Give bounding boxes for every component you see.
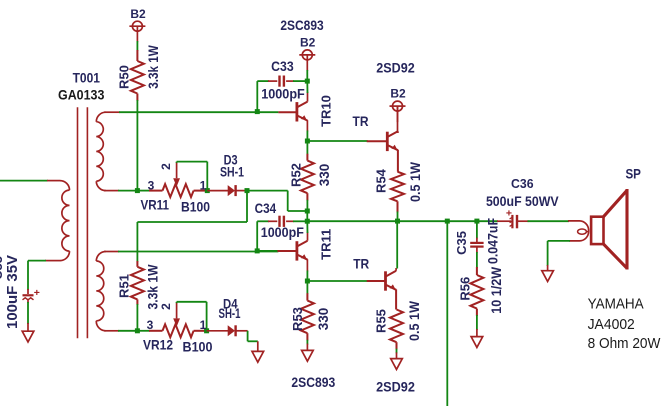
- svg-text:VR11: VR11: [140, 197, 169, 213]
- wire base node up: [257, 81, 269, 112]
- ground: [22, 331, 34, 342]
- label B2 (C33): [300, 35, 316, 49]
- svg-text:C34: C34: [255, 200, 277, 216]
- label SP: [625, 166, 641, 182]
- node VR11 pin1: [205, 188, 210, 193]
- VR11 wiper: [173, 162, 180, 187]
- label R50: [117, 65, 132, 89]
- transistor TR (2SD92 bottom): [386, 271, 397, 291]
- label SH-1 (D3): [220, 164, 244, 180]
- svg-text:TR11: TR11: [318, 229, 333, 260]
- wire R52 to rail: [306, 211, 308, 221]
- node TR11 emitter: [305, 279, 310, 284]
- label B100 (VR11): [181, 199, 210, 215]
- capacitor C36: [497, 208, 529, 229]
- label R55: [374, 309, 389, 333]
- label R56: [457, 277, 472, 301]
- svg-text:1000pF: 1000pF: [261, 224, 304, 240]
- wire lower base node up: [257, 221, 269, 251]
- svg-text:SH-1: SH-1: [220, 164, 244, 180]
- label 1000pF (C34): [261, 224, 304, 240]
- wire base TR11: [257, 250, 297, 252]
- label TR (top): [353, 113, 369, 129]
- TR collector wire: [397, 106, 399, 133]
- svg-text:R56: R56: [457, 277, 472, 301]
- svg-text:0.5 1W: 0.5 1W: [407, 301, 422, 341]
- node rail R54: [395, 219, 400, 224]
- node D3 cathode: [245, 188, 250, 193]
- speaker SP: [591, 189, 627, 270]
- svg-text:+: +: [506, 208, 512, 220]
- TR10 emitter wire: [306, 120, 308, 141]
- label 2SD92 bottom: [376, 378, 415, 394]
- TR2 collector wire: [396, 221, 397, 271]
- svg-text:2: 2: [159, 303, 173, 310]
- resistor R54: [391, 172, 404, 221]
- transformer secondary 2: [96, 252, 106, 331]
- label VR12: [143, 336, 173, 352]
- svg-text:B2: B2: [130, 7, 146, 21]
- svg-text:TR: TR: [353, 256, 369, 272]
- svg-text:2SC893: 2SC893: [291, 374, 335, 390]
- transformer T001 primary winding: [60, 181, 70, 261]
- label 0.5 1W (R54): [408, 162, 423, 202]
- wire D4 to ground: [248, 331, 258, 352]
- label 500uF 50WV: [486, 194, 559, 209]
- svg-text:R52: R52: [289, 163, 304, 187]
- speaker lead loop: [568, 221, 589, 241]
- power B2 (TR): [390, 101, 406, 122]
- ground (D4): [252, 351, 264, 362]
- svg-text:GA0133: GA0133: [58, 86, 105, 102]
- TR11 collector wire: [306, 221, 308, 240]
- wire rail down: [446, 221, 448, 406]
- svg-text:SP: SP: [625, 166, 641, 182]
- wire to VR11 pin3: [137, 190, 162, 192]
- label 2SC893 bottom: [291, 374, 335, 390]
- label GA0133: [58, 86, 105, 102]
- svg-text:100uF 35V: 100uF 35V: [5, 255, 21, 329]
- node C34 right: [305, 219, 310, 224]
- svg-text:2SD92: 2SD92: [376, 60, 415, 76]
- wire sec1 top: [104, 111, 278, 113]
- resistor R50: [131, 50, 144, 101]
- trimmer VR11: [163, 184, 194, 197]
- wire VR12 wiper to pin1: [177, 302, 207, 331]
- wire to TR base (bottom): [307, 280, 386, 282]
- power B2 (R50): [129, 21, 145, 42]
- svg-text:1: 1: [200, 318, 207, 332]
- svg-text:SH-1: SH-1: [219, 305, 241, 321]
- resistor R55: [390, 310, 403, 359]
- label T001: [73, 69, 101, 85]
- TR2 emitter wire: [395, 289, 397, 309]
- svg-text:TR: TR: [353, 113, 369, 129]
- svg-text:B2: B2: [390, 87, 406, 101]
- capacitor 100uF 35V: [23, 287, 40, 303]
- label B2 (R50): [130, 7, 146, 21]
- wire B2-R50: [136, 41, 138, 51]
- label JA4002: [588, 316, 635, 333]
- label R51: [117, 274, 132, 298]
- VR11 pin1 wire: [194, 190, 208, 192]
- svg-text:330: 330: [316, 308, 331, 331]
- label 1000pF (C33): [261, 86, 305, 102]
- svg-text:R53: R53: [290, 307, 305, 331]
- diode D3: [207, 185, 247, 196]
- svg-text:0.047uF: 0.047uF: [486, 218, 501, 264]
- svg-text:VR12: VR12: [143, 336, 173, 352]
- capacitor C34: [268, 216, 294, 227]
- label VR11: [140, 197, 169, 213]
- transistor TR (2SD92 top): [387, 131, 398, 151]
- label 3.3k 1W: [145, 45, 161, 89]
- pin label 1 (VR12): [200, 318, 207, 332]
- transistor TR11: [297, 241, 308, 261]
- label R53: [290, 307, 305, 331]
- label 0.047uF: [486, 218, 501, 264]
- VR12 pin1 wire: [194, 330, 207, 332]
- wire D3 to lower base: [137, 191, 247, 262]
- svg-text:2SC893: 2SC893: [280, 17, 323, 33]
- node VR12 pin1: [204, 328, 209, 333]
- node rail C35: [474, 219, 479, 224]
- wire primary bottom: [28, 261, 60, 290]
- transformer secondary 1: [96, 112, 106, 190]
- svg-text:1: 1: [200, 179, 207, 193]
- svg-text:R51: R51: [117, 274, 132, 298]
- label R52: [289, 163, 304, 187]
- ground (R55): [391, 359, 403, 370]
- wire base TR10: [278, 111, 297, 113]
- node rail branch: [445, 219, 450, 224]
- TR10 collector wire: [306, 81, 308, 102]
- svg-text:3.3k 1W: 3.3k 1W: [145, 264, 161, 310]
- label B2 (TR): [390, 87, 406, 101]
- transistor TR10: [297, 102, 308, 122]
- label B100 (VR12): [183, 339, 213, 355]
- trimmer VR12: [163, 324, 194, 337]
- node C33 right: [305, 79, 310, 84]
- TR11 emitter wire: [306, 259, 308, 281]
- label 2SC893 top: [280, 17, 323, 33]
- wire VR11 wiper to pin1: [177, 162, 208, 191]
- svg-text:C35: C35: [454, 231, 469, 255]
- svg-text:B100: B100: [181, 199, 210, 215]
- svg-text:+: +: [34, 287, 40, 299]
- wire to TR base (top): [307, 140, 387, 142]
- wire output rail: [307, 220, 498, 222]
- svg-text:2: 2: [159, 163, 173, 170]
- svg-text:C36: C36: [511, 177, 534, 191]
- svg-text:330: 330: [317, 164, 332, 187]
- svg-text:1000pF: 1000pF: [261, 86, 305, 102]
- label 2SD92 top: [376, 60, 415, 76]
- svg-text:C55: C55: [0, 256, 5, 280]
- svg-text:JA4002: JA4002: [588, 316, 635, 333]
- ground (R56): [471, 337, 483, 348]
- svg-text:R54: R54: [374, 168, 389, 193]
- wire C33 to B2 node: [293, 80, 307, 82]
- wire sec1 bottom: [104, 190, 137, 192]
- label C55 cut: [0, 256, 5, 280]
- capacitor C35: [470, 221, 483, 253]
- label 3.3k 1W (R51): [145, 264, 161, 310]
- svg-text:500uF 50WV: 500uF 50WV: [486, 194, 559, 209]
- wire C36 to speaker: [528, 220, 570, 222]
- pin label 3 (VR12): [147, 318, 154, 332]
- ground (R53): [302, 350, 314, 361]
- wire B2 to C33 node: [306, 70, 308, 81]
- VR12 wiper: [173, 302, 180, 327]
- label 10 1/2W: [489, 267, 504, 314]
- svg-text:B2: B2: [300, 35, 316, 49]
- node R52 bottom: [305, 209, 310, 214]
- label 330 (R52): [317, 164, 332, 187]
- label SH-1 (D4): [219, 305, 241, 321]
- svg-text:C33: C33: [271, 58, 294, 74]
- wire D3 to R52 bottom: [247, 191, 307, 211]
- resistor R51: [131, 261, 144, 331]
- label C33: [271, 58, 294, 74]
- wire speaker return: [548, 241, 570, 271]
- svg-text:B100: B100: [183, 339, 213, 355]
- wire R50 down: [136, 100, 138, 191]
- label C34: [255, 200, 277, 216]
- svg-text:T001: T001: [73, 69, 101, 85]
- label TR10: [318, 95, 333, 127]
- pin label 2 (VR11): [159, 163, 173, 170]
- svg-text:TR10: TR10: [318, 95, 333, 127]
- label 8 Ohm 20W: [588, 335, 662, 352]
- pin label 2 (VR12): [159, 303, 173, 310]
- label D4: [223, 295, 238, 311]
- svg-text:R55: R55: [374, 309, 389, 333]
- svg-text:YAMAHA: YAMAHA: [588, 296, 644, 313]
- wire primary top: [0, 180, 60, 182]
- wire sec2 top: [104, 251, 278, 253]
- capacitor C33: [268, 76, 294, 87]
- node R51/VR12: [135, 328, 140, 333]
- svg-text:0.5 1W: 0.5 1W: [408, 162, 423, 202]
- svg-text:3.3k 1W: 3.3k 1W: [145, 45, 161, 89]
- TR emitter wire: [397, 150, 399, 172]
- svg-text:3: 3: [148, 179, 155, 193]
- wire to VR12 pin3: [137, 330, 162, 332]
- pin label 3 (VR11): [148, 179, 155, 193]
- label 0.5 1W (R55): [407, 301, 422, 341]
- power B2 (C33): [299, 50, 315, 71]
- label 100uF 35V: [5, 255, 21, 329]
- label C36: [511, 177, 534, 191]
- svg-text:8 Ohm 20W: 8 Ohm 20W: [588, 335, 662, 352]
- label R54: [374, 168, 389, 193]
- diode D4: [207, 325, 248, 336]
- svg-text:R50: R50: [117, 65, 132, 89]
- label D3: [224, 152, 238, 168]
- resistor R53: [301, 281, 314, 350]
- label 330 (R53): [316, 308, 331, 331]
- node R50/VR11: [135, 188, 140, 193]
- wire cap to ground: [27, 302, 29, 331]
- svg-text:2SD92: 2SD92: [376, 378, 415, 394]
- wire sec2 bottom: [104, 330, 137, 332]
- wire C34 to rail node: [293, 220, 307, 222]
- label YAMAHA: [588, 296, 644, 313]
- node base TR10: [255, 109, 260, 114]
- resistor R52: [301, 141, 314, 211]
- node TR10 emitter: [305, 139, 310, 144]
- svg-text:10 1/2W: 10 1/2W: [489, 267, 504, 314]
- label C35: [454, 231, 469, 255]
- pin label 1 (VR11): [200, 179, 207, 193]
- label TR11: [318, 229, 333, 260]
- node base TR11: [255, 248, 260, 253]
- label TR (bottom): [353, 256, 369, 272]
- ground (speaker): [542, 271, 554, 282]
- transformer core: [78, 107, 88, 338]
- svg-text:3: 3: [147, 318, 154, 332]
- resistor R56: [470, 252, 483, 337]
